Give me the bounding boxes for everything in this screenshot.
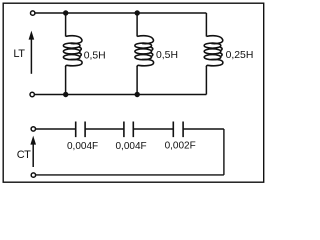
node dot top rail / L1: [63, 10, 68, 15]
wire capacitor row top: [36, 128, 224, 130]
inductor L1: [63, 13, 82, 95]
svg-text:0,25H: 0,25H: [226, 50, 254, 61]
svg-text:0,5H: 0,5H: [84, 50, 106, 61]
inductor L3: [204, 13, 223, 95]
LT arrow: [29, 31, 35, 74]
svg-text:0,004F: 0,004F: [116, 141, 147, 152]
node dot bottom rail / L2: [135, 92, 140, 97]
svg-text:CT: CT: [17, 149, 31, 161]
capacitor C1 plates: [76, 122, 85, 138]
terminal top-left: [31, 11, 35, 15]
svg-text:0,002F: 0,002F: [165, 141, 196, 152]
CT arrow: [30, 136, 36, 167]
capacitor C3 plates: [173, 122, 183, 138]
wire top rail: [35, 12, 207, 14]
capacitor C2 plates: [124, 122, 133, 138]
terminal cap row top-left: [31, 127, 35, 131]
border frame: [3, 3, 264, 182]
node dot bottom rail / L1: [63, 92, 68, 97]
svg-text:0,004F: 0,004F: [67, 141, 98, 152]
svg-text:0,5H: 0,5H: [156, 50, 178, 61]
wire bottom rail: [34, 94, 206, 96]
terminal bottom-left of LT section: [30, 92, 34, 96]
wire capacitor loop right side: [223, 129, 225, 175]
node dot top rail / L2: [135, 10, 140, 15]
svg-text:LT: LT: [13, 48, 25, 60]
inductor L2: [135, 13, 154, 95]
terminal cap row bottom-left: [31, 173, 35, 177]
wire capacitor row bottom: [36, 174, 224, 176]
